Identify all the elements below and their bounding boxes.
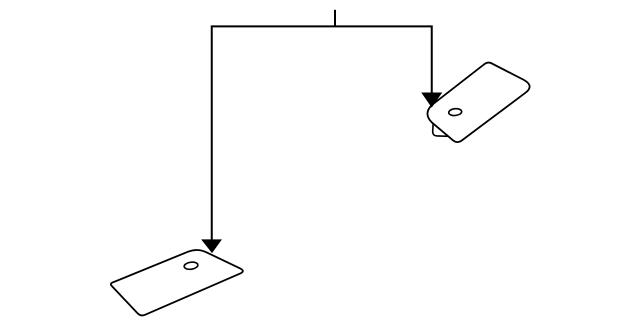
hole in upper-right plate	[448, 108, 462, 116]
hole in lower-left plate	[184, 261, 199, 270]
arrowhead to lower-left plate	[202, 240, 220, 252]
plate P2 (lower-left plate)	[111, 250, 243, 315]
tab on upper-right plate	[433, 120, 451, 137]
arrowhead to upper-right plate	[422, 93, 441, 107]
connector wire: left leader, horizontal run, right leader	[212, 26, 432, 240]
callout tick (top center)	[334, 10, 336, 27]
plate P1 (upper-right plate)	[427, 63, 529, 143]
